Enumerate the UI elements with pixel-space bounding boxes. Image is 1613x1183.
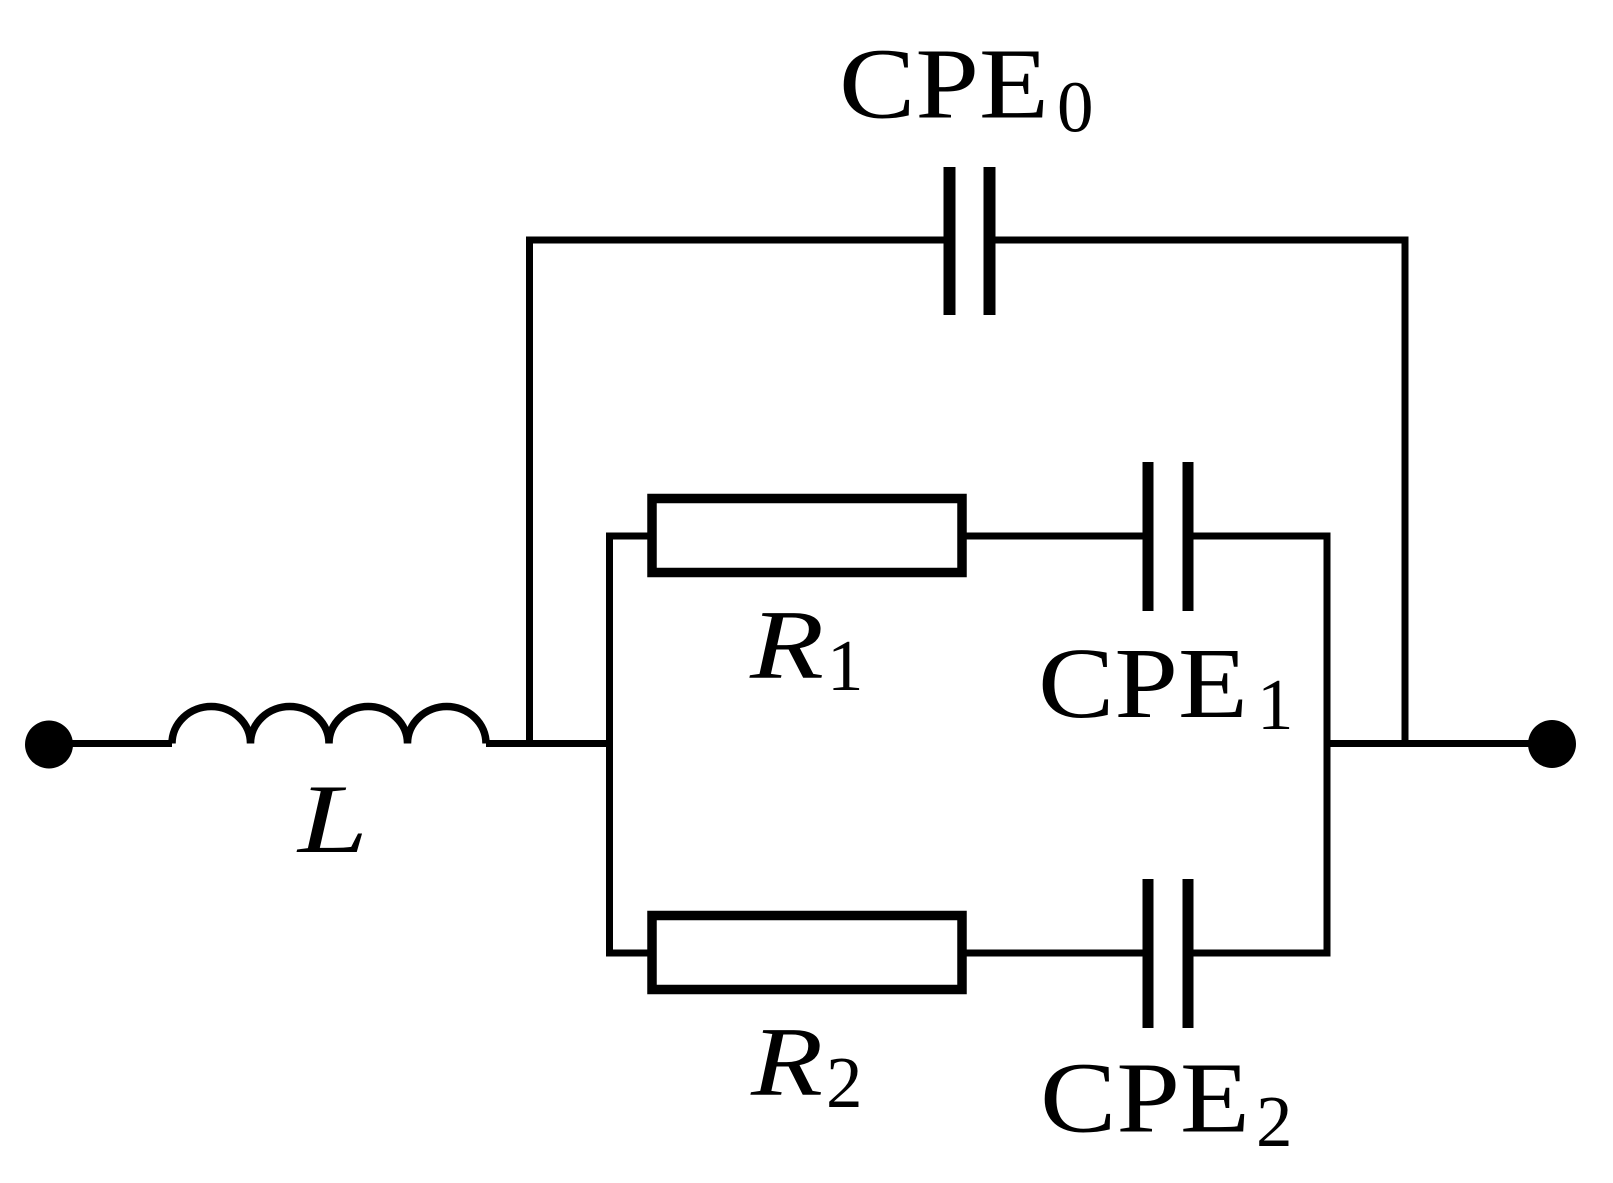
right terminal node	[1528, 720, 1576, 768]
wire R1 to CPE1	[962, 533, 1143, 540]
wire CPE0 to top-right corner	[996, 237, 1409, 244]
resistor R1	[652, 499, 962, 573]
label R1	[749, 591, 864, 706]
wire left terminal to inductor	[49, 740, 172, 747]
svg-text:1: 1	[827, 625, 864, 706]
resistor R2	[652, 916, 962, 990]
capacitor CPE1	[1143, 462, 1194, 611]
label CPE0	[839, 28, 1094, 148]
wire node to right terminal	[1327, 740, 1552, 747]
label CPE1	[1038, 627, 1294, 745]
svg-text:CPE: CPE	[1038, 627, 1248, 739]
label R2	[750, 1008, 863, 1123]
wire node A branch to R1	[606, 533, 652, 540]
node A: outer-left vertical wire	[526, 240, 533, 747]
capacitor CPE0	[944, 167, 996, 315]
svg-text:CPE: CPE	[1040, 1042, 1250, 1154]
outer-right vertical wire	[1402, 240, 1409, 747]
inner-left vertical wire	[606, 533, 613, 957]
wire top-left to CPE0	[526, 237, 944, 244]
label CPE2	[1040, 1042, 1293, 1163]
left terminal node	[25, 721, 73, 769]
inductor L	[172, 707, 486, 744]
svg-text:0: 0	[1057, 67, 1094, 148]
wire CPE1 to inner-right vertical	[1194, 533, 1331, 540]
wire inductor to node A	[486, 740, 613, 747]
wire node B to R2	[606, 950, 652, 957]
capacitor CPE2	[1143, 879, 1194, 1028]
wire R2 to CPE2	[962, 950, 1143, 957]
svg-text:L: L	[295, 765, 368, 874]
wire CPE2 to inner-right vertical	[1194, 950, 1331, 957]
inner-right vertical wire	[1324, 533, 1331, 957]
svg-text:2: 2	[826, 1042, 863, 1123]
svg-text:R: R	[749, 591, 824, 700]
svg-text:R: R	[750, 1008, 823, 1117]
svg-text:CPE: CPE	[839, 28, 1049, 140]
svg-text:2: 2	[1256, 1081, 1293, 1162]
svg-text:1: 1	[1257, 664, 1294, 745]
